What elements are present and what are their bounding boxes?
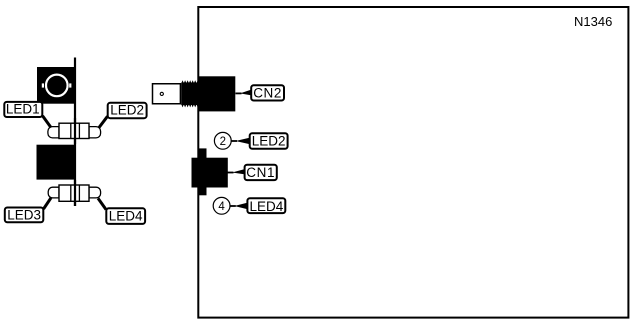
- svg-text:LED2: LED2: [252, 134, 286, 149]
- svg-text:4: 4: [218, 201, 225, 213]
- svg-text:LED1: LED1: [6, 102, 40, 117]
- svg-text:LED4: LED4: [109, 208, 143, 223]
- svg-text:LED2: LED2: [110, 103, 144, 118]
- svg-text:LED3: LED3: [7, 207, 41, 222]
- svg-text:CN1: CN1: [246, 165, 275, 180]
- svg-text:2: 2: [220, 136, 226, 148]
- svg-text:CN2: CN2: [253, 85, 282, 100]
- svg-text:LED4: LED4: [250, 199, 284, 214]
- svg-text:N1346: N1346: [574, 14, 612, 29]
